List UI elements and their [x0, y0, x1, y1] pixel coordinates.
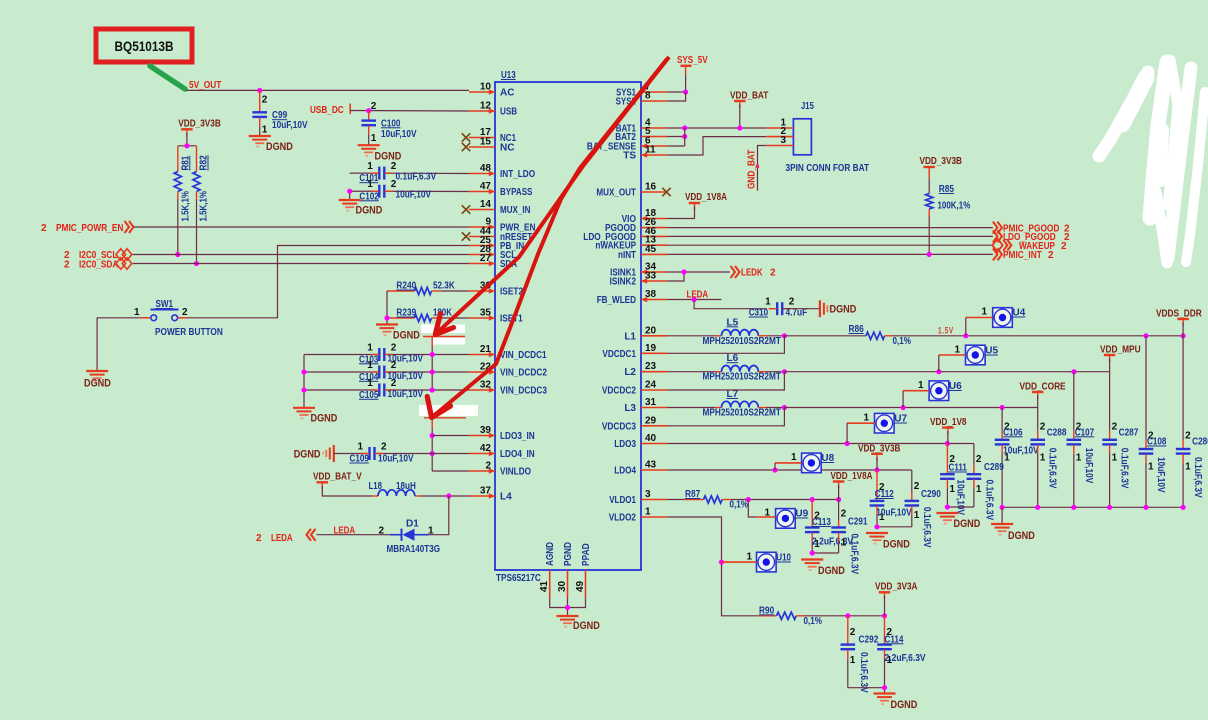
svg-text:LEDK: LEDK	[741, 268, 763, 279]
svg-text:D1: D1	[406, 519, 419, 530]
wire FB_WLED to C310	[694, 300, 766, 309]
svg-text:19: 19	[645, 343, 657, 354]
svg-text:GND_BAT: GND_BAT	[747, 150, 758, 189]
capacitor C109	[350, 442, 414, 465]
capacitor C289	[967, 454, 1005, 520]
capacitor C310	[749, 297, 808, 319]
svg-text:41: 41	[539, 580, 550, 592]
svg-text:1: 1	[863, 413, 869, 424]
wire C292 bottom join	[848, 687, 885, 689]
svg-text:0.1uF,6.3V: 0.1uF,6.3V	[1047, 448, 1058, 489]
wire VDD_MPU rail	[784, 371, 1109, 373]
pin 42 LDO4_IN	[469, 443, 535, 460]
wire J15 pin3 to GND_BAT	[758, 146, 767, 191]
wire VDD_CORE stub	[1037, 396, 1039, 408]
power GND_BAT	[747, 150, 760, 189]
junction rail C105	[301, 387, 306, 392]
testpoint U8	[791, 452, 835, 473]
svg-text:1: 1	[367, 161, 373, 172]
power VDD_3V3A	[875, 582, 918, 600]
wire U6 to rail	[902, 391, 904, 408]
wire C291 top	[838, 500, 840, 521]
svg-text:2: 2	[1061, 241, 1067, 252]
wire VLDO1 rail	[748, 499, 838, 501]
svg-text:PGND: PGND	[563, 542, 574, 566]
svg-text:PMIC_POWR_EN: PMIC_POWR_EN	[56, 223, 123, 234]
junction 1.5V C108	[1143, 333, 1148, 338]
svg-text:L3: L3	[624, 403, 636, 414]
wire node A vertical	[431, 347, 433, 390]
wire VIN_DCDC3	[304, 389, 469, 391]
junction FB_WLED C310	[692, 297, 697, 302]
junction node B LDO4_IN	[430, 451, 435, 456]
svg-text:L1: L1	[624, 331, 636, 342]
ground DGND C101 C102	[339, 200, 383, 217]
svg-text:DGND: DGND	[830, 304, 857, 316]
svg-text:VDD_CORE: VDD_CORE	[1020, 382, 1066, 393]
annotation white-out patch A2	[433, 338, 465, 345]
pin 5 BAT2	[615, 126, 667, 143]
svg-text:1: 1	[914, 510, 920, 521]
wire R81 R82 top rail	[178, 145, 197, 147]
svg-text:C286: C286	[1192, 437, 1208, 448]
svg-text:0.1uF,6.3V: 0.1uF,6.3V	[849, 534, 860, 575]
wire 5V_OUT to AC pin	[186, 89, 469, 91]
power VDD_3V3B right	[920, 156, 963, 174]
svg-text:VDD_3V3B: VDD_3V3B	[178, 119, 221, 130]
svg-text:1: 1	[367, 343, 373, 354]
svg-text:2: 2	[485, 461, 491, 472]
svg-text:VIN_DCDC2: VIN_DCDC2	[500, 368, 547, 379]
ground DGND C112	[866, 533, 910, 551]
wire node A horizontal red	[423, 336, 465, 338]
wire node B vertical red	[431, 418, 433, 429]
svg-text:U13: U13	[501, 70, 516, 81]
inductor L18	[369, 481, 422, 496]
junction LDO4 VDD_3V3B	[874, 467, 879, 472]
pin 37 L4	[469, 486, 512, 503]
svg-text:C102: C102	[359, 191, 379, 202]
wire diode to LEDA chevron	[317, 534, 391, 536]
svg-text:49: 49	[575, 580, 586, 592]
wire VDD_BAT stub	[739, 105, 741, 129]
net label USB_DC	[310, 105, 344, 116]
svg-text:38: 38	[645, 289, 657, 300]
pin 31 L3	[624, 397, 667, 414]
svg-text:MBRA140T3G: MBRA140T3G	[387, 544, 441, 555]
svg-text:VDCDC2: VDCDC2	[602, 386, 636, 397]
net label LEDA right	[687, 290, 709, 301]
svg-text:2: 2	[391, 378, 397, 389]
wire BAT2	[667, 136, 685, 138]
svg-text:VDD_3V3B: VDD_3V3B	[920, 156, 963, 167]
svg-text:VDCDC1: VDCDC1	[602, 349, 636, 360]
wire C310 to ground	[783, 308, 820, 310]
svg-text:27: 27	[480, 253, 492, 264]
off-page ref PMIC_INT	[993, 248, 1054, 261]
junction L7 VDCDC3	[782, 405, 787, 410]
pin 45 nINT	[618, 244, 667, 261]
svg-text:32: 32	[480, 380, 492, 391]
junction USB_DC C100	[366, 108, 371, 113]
svg-text:MUX_IN: MUX_IN	[500, 205, 530, 216]
resistor R90	[758, 605, 848, 627]
svg-text:21: 21	[480, 344, 492, 355]
wire I2C0_SCL	[133, 254, 469, 256]
svg-text:1: 1	[1148, 462, 1154, 473]
pin 48 INT_LDO	[469, 163, 535, 180]
svg-text:31: 31	[645, 397, 657, 408]
svg-text:NC: NC	[500, 143, 514, 154]
wire 1.5V rail	[893, 335, 1183, 337]
svg-text:43: 43	[645, 460, 657, 471]
wire VDD_CORE rail	[784, 407, 1037, 409]
wire U7 lead	[847, 422, 874, 424]
ground DGND C111	[936, 513, 980, 530]
svg-text:R87: R87	[685, 489, 701, 500]
power VDDS_DDR	[1156, 309, 1202, 327]
off-page ref LDO_PGOOD	[993, 230, 1070, 243]
pin 18 VIO	[622, 208, 667, 225]
pin 34 ISINK1	[610, 262, 667, 279]
inductor L7	[667, 389, 781, 419]
svg-text:1.5K,1%: 1.5K,1%	[199, 191, 210, 222]
junction 1.5V U4	[963, 333, 968, 338]
pin 46 LDO_PGOOD	[583, 226, 667, 243]
svg-text:U4: U4	[1013, 308, 1026, 319]
wire R90 out rail	[848, 615, 885, 617]
svg-text:R240: R240	[396, 281, 416, 292]
svg-text:J15: J15	[801, 101, 814, 112]
op-amp U13 TPS65217C body	[495, 82, 641, 570]
wire PMIC_PGOOD	[667, 227, 993, 229]
svg-text:1: 1	[765, 297, 771, 308]
junction R90 VDD_3V3A	[882, 613, 887, 618]
svg-text:2: 2	[841, 509, 847, 520]
svg-text:LEDA: LEDA	[271, 533, 293, 544]
svg-text:LDO3: LDO3	[614, 439, 636, 450]
svg-text:15: 15	[480, 137, 492, 148]
pin 43 LDO4	[614, 460, 667, 477]
testpoint U6	[918, 380, 962, 401]
wire U6 lead	[903, 390, 929, 392]
junction bottom rail x1183	[1181, 505, 1186, 510]
svg-text:VDD_MPU: VDD_MPU	[1100, 345, 1141, 356]
svg-text:POWER BUTTON: POWER BUTTON	[155, 327, 223, 338]
svg-text:DGND: DGND	[393, 330, 420, 342]
svg-text:5V_OUT: 5V_OUT	[189, 80, 221, 91]
wire VDD_3V3A stub	[884, 596, 886, 616]
svg-text:C108: C108	[1147, 437, 1167, 448]
svg-text:BQ51013B: BQ51013B	[115, 39, 174, 54]
switch SW1	[134, 299, 188, 321]
off-page ref WAKEUP	[992, 239, 1067, 252]
svg-text:1: 1	[981, 307, 987, 318]
wire ISINK2	[667, 272, 684, 281]
svg-text:39: 39	[480, 425, 492, 436]
pin 19 VDCDC1	[602, 343, 667, 360]
svg-text:C105: C105	[359, 390, 379, 401]
U13 value label TPS65217C	[496, 573, 541, 584]
svg-text:C109: C109	[350, 454, 370, 465]
svg-text:10uF,10V: 10uF,10V	[388, 389, 424, 400]
inductor L5	[667, 317, 781, 347]
svg-text:VDD_1V8A: VDD_1V8A	[685, 192, 727, 203]
off-page ref I2C0_SCL	[64, 249, 132, 261]
capacitor C104	[359, 360, 423, 383]
svg-text:VDD_3V3A: VDD_3V3A	[875, 582, 918, 593]
pin 17 NC1 no-connect X	[462, 133, 470, 141]
svg-text:1: 1	[1185, 462, 1191, 473]
wire C290 top	[911, 470, 913, 492]
pin 3 VLDO1	[609, 489, 667, 506]
junction node B LDO3_IN	[430, 433, 435, 438]
junction VLDO1 U9	[746, 497, 751, 502]
power SYS_5V	[677, 55, 708, 66]
svg-text:R90: R90	[759, 605, 775, 616]
svg-text:52.3K: 52.3K	[433, 281, 455, 292]
label 3PIN CONN FOR BAT	[786, 163, 870, 174]
ground DGND R239	[376, 325, 420, 342]
pin 1 VLDO2	[609, 507, 667, 524]
svg-text:2: 2	[914, 481, 920, 492]
svg-text:DGND: DGND	[356, 205, 383, 217]
label POWER BUTTON	[155, 327, 223, 338]
wire BAT1-BAT2-BAT_SENSE vertical	[684, 128, 686, 146]
pin 24 VDCDC2	[602, 380, 667, 397]
capacitor C114	[877, 616, 926, 694]
testpoint U10	[746, 552, 791, 572]
off-page ref I2C0_SDA	[64, 258, 132, 271]
wire SYS1	[667, 91, 686, 93]
U13 reference label	[501, 70, 516, 81]
junction BAT1 vertical	[682, 125, 687, 130]
testpoint U9	[764, 508, 808, 529]
svg-text:VIN_DCDC1: VIN_DCDC1	[500, 350, 547, 361]
junction LDO4 U8	[772, 467, 777, 472]
ground DGND SW1	[84, 371, 111, 390]
svg-text:35: 35	[480, 308, 492, 319]
junction R90 C292	[845, 613, 850, 618]
pin 12 USB	[469, 101, 517, 118]
pin 6 BAT_SENSE	[587, 136, 667, 153]
junction node A VIN_DCDC2	[430, 369, 435, 374]
capacitor C286	[1176, 336, 1208, 508]
resistor R85	[926, 171, 971, 255]
testpoint U5	[954, 345, 998, 365]
svg-text:1: 1	[918, 380, 924, 391]
annotation white-out patch A1	[421, 325, 465, 334]
wire C289 bottom join	[947, 506, 974, 508]
pin 4 BAT1	[616, 118, 667, 135]
wire LDO4_IN	[377, 453, 470, 455]
svg-text:0.1uF,6.3V: 0.1uF,6.3V	[396, 172, 437, 183]
svg-text:C107: C107	[1075, 427, 1095, 438]
wire PGND stub	[567, 598, 569, 615]
junction C102 rail	[347, 189, 352, 194]
svg-text:I2C0_SDA: I2C0_SDA	[79, 260, 118, 271]
svg-text:C114: C114	[885, 634, 904, 645]
svg-text:0.1uF,6.3V: 0.1uF,6.3V	[1119, 448, 1130, 489]
svg-text:PMIC_INT: PMIC_INT	[1003, 250, 1042, 261]
svg-text:TPS65217C: TPS65217C	[496, 573, 541, 584]
svg-text:0,1%: 0,1%	[730, 500, 749, 511]
svg-text:U10: U10	[776, 553, 791, 564]
wire VDD_MPU stub	[1109, 359, 1111, 372]
wire VDCDC3 feedback	[667, 408, 784, 426]
svg-text:30: 30	[557, 580, 568, 592]
svg-text:L4: L4	[500, 492, 512, 503]
svg-text:SYS_5V: SYS_5V	[677, 55, 708, 66]
wire VDDS_DDR stub	[1182, 323, 1184, 336]
svg-text:VDDS_DDR: VDDS_DDR	[1156, 309, 1202, 320]
resistor R87	[667, 489, 748, 511]
wire LDO3_IN	[432, 435, 469, 437]
svg-text:2: 2	[850, 627, 856, 638]
svg-text:0,1%: 0,1%	[893, 336, 912, 347]
wire L6 out	[767, 371, 785, 373]
annotation red box BQ51013B	[96, 29, 192, 62]
pin 16 MUX_OUT	[596, 182, 667, 199]
svg-text:R86: R86	[849, 324, 865, 335]
pin 15 NC no-connect X	[462, 143, 470, 151]
svg-text:2: 2	[391, 343, 397, 354]
power VDD_CORE	[1020, 382, 1066, 400]
pin 44 nRESET	[469, 226, 532, 243]
resistor R81	[174, 146, 191, 255]
svg-text:1: 1	[1112, 452, 1118, 463]
svg-text:3: 3	[645, 489, 651, 500]
svg-text:DGND: DGND	[954, 518, 981, 530]
capacitor C292	[841, 616, 879, 693]
svg-text:1: 1	[367, 360, 373, 371]
svg-text:3: 3	[780, 135, 786, 146]
svg-text:MPH252010S2R2MT: MPH252010S2R2MT	[703, 372, 781, 383]
pin 23 L2	[624, 361, 667, 378]
junction bottom rail x1109	[1107, 505, 1112, 510]
wire C289 top	[973, 444, 975, 466]
svg-text:10uF,10V: 10uF,10V	[1155, 457, 1166, 493]
svg-text:C291: C291	[848, 517, 868, 528]
svg-text:DGND: DGND	[266, 141, 293, 153]
svg-text:1: 1	[949, 484, 955, 495]
wire C109 left	[334, 453, 367, 455]
junction R239 ground	[384, 315, 389, 320]
wire VDD_1V8A stub right	[838, 485, 840, 500]
pin 20 L1	[624, 325, 667, 342]
off-page ref LEDK	[731, 266, 777, 279]
svg-text:10uF,10V: 10uF,10V	[1003, 445, 1039, 456]
capacitor C288	[1030, 408, 1066, 508]
wire VIN_DCDC2	[304, 371, 469, 373]
svg-text:0.1uF,6.3V: 0.1uF,6.3V	[1192, 457, 1203, 498]
svg-text:C287: C287	[1119, 427, 1139, 438]
wire LDO_PGOOD	[667, 235, 993, 237]
svg-text:10uF,10V: 10uF,10V	[272, 120, 308, 131]
svg-text:2.2uF,6.3V: 2.2uF,6.3V	[812, 536, 853, 547]
svg-text:18uH: 18uH	[396, 481, 416, 492]
off-page ref PMIC_PGOOD	[993, 222, 1070, 235]
capacitor C101	[359, 161, 436, 184]
svg-text:ISET2: ISET2	[500, 287, 523, 298]
junction MPU U5	[936, 369, 941, 374]
svg-text:45: 45	[645, 244, 657, 255]
svg-text:LDO4_IN: LDO4_IN	[500, 449, 535, 460]
junction C112 C290 gnd	[874, 524, 879, 529]
svg-text:1.5V: 1.5V	[938, 326, 954, 337]
wire VDCDC2 feedback	[667, 372, 784, 390]
svg-text:37: 37	[480, 486, 492, 497]
pin 7 SYS1	[616, 82, 667, 99]
capacitor C100	[361, 101, 416, 145]
power VDD_3V3B mid	[858, 443, 901, 461]
svg-text:R81: R81	[180, 155, 191, 170]
svg-text:DGND: DGND	[1008, 530, 1035, 542]
testpoint U7	[863, 413, 907, 434]
svg-text:1: 1	[1040, 452, 1046, 463]
capacitor C111	[940, 444, 967, 516]
junction C111 C289 gnd	[945, 504, 950, 509]
junction bottom rail x1037	[1035, 505, 1040, 510]
svg-text:VDCDC3: VDCDC3	[602, 421, 636, 432]
svg-text:10uF,10V: 10uF,10V	[396, 190, 432, 201]
pin 8 SYS2	[616, 91, 667, 108]
svg-text:C290: C290	[921, 489, 941, 500]
junction R81 SCL	[175, 252, 180, 257]
svg-text:1: 1	[428, 526, 434, 537]
ground DGND C99	[249, 136, 293, 153]
wire node B vertical	[431, 429, 433, 471]
svg-text:ISINK2: ISINK2	[610, 277, 637, 288]
junction bottom rail x1073	[1071, 505, 1076, 510]
pin 36 ISET2	[469, 281, 523, 298]
svg-text:2: 2	[789, 297, 795, 308]
svg-text:1: 1	[371, 133, 377, 144]
junction rail C104	[301, 369, 306, 374]
pin 35 ISET1	[469, 308, 523, 325]
power VDD_3V3B left	[178, 119, 221, 137]
annotation white scribble top right	[1099, 60, 1205, 263]
power VDD_1V8A right	[831, 471, 873, 489]
svg-text:C100: C100	[381, 118, 401, 129]
pin 27 SDA	[469, 253, 517, 270]
svg-text:VDD_3V3B: VDD_3V3B	[858, 443, 901, 454]
svg-text:DGND: DGND	[573, 620, 600, 632]
off-page ref PMIC_POWR_EN	[41, 221, 134, 234]
svg-text:10uF,10V: 10uF,10V	[1083, 448, 1094, 484]
svg-text:1: 1	[746, 552, 752, 563]
svg-text:USB: USB	[500, 107, 517, 118]
svg-text:2: 2	[64, 260, 70, 271]
wire L5 out	[767, 335, 785, 337]
svg-text:1: 1	[791, 452, 797, 463]
pin 15 NC	[469, 137, 514, 154]
testpoint U4	[981, 307, 1025, 328]
wire cap bank bottom rail	[1002, 506, 1183, 508]
wire SYS2	[667, 92, 686, 101]
svg-text:1: 1	[976, 484, 982, 495]
svg-text:47: 47	[480, 181, 492, 192]
power flag pin USB_DC	[349, 104, 351, 115]
svg-text:VDD_BAT: VDD_BAT	[730, 91, 768, 102]
svg-text:MUX_OUT: MUX_OUT	[596, 188, 636, 199]
ground DGND C109	[294, 445, 334, 462]
svg-text:INT_LDO: INT_LDO	[500, 169, 535, 180]
svg-text:U9: U9	[795, 509, 808, 520]
svg-text:DGND: DGND	[891, 699, 918, 711]
junction 1.5V VDDS_DDR	[1181, 333, 1186, 338]
pin 10 AC	[469, 82, 514, 99]
